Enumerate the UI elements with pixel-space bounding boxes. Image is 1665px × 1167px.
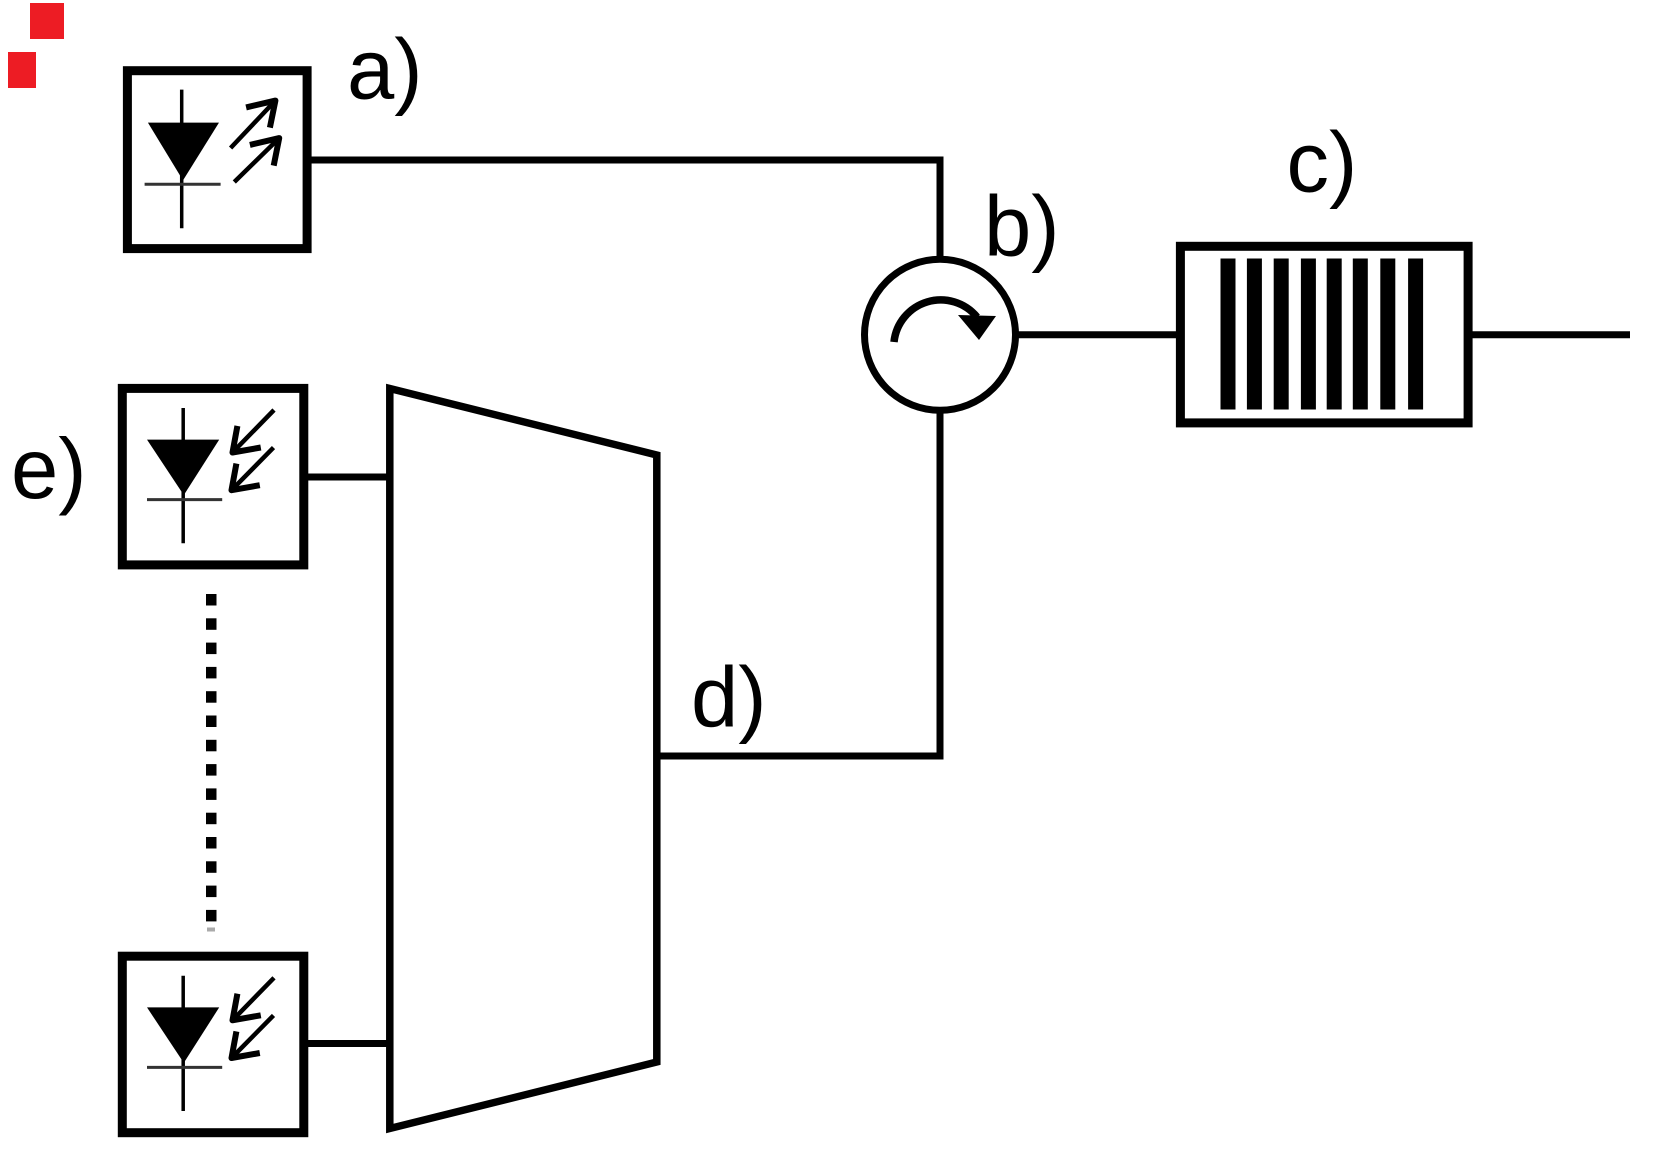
photodiode box e1 [122, 388, 303, 565]
fiber grating c [1180, 246, 1468, 423]
wire photodiode e1 to mux d [303, 474, 391, 481]
laser diode box a [127, 71, 307, 249]
mux trapezoid d [390, 389, 657, 1129]
svg-text:b): b) [984, 180, 1060, 275]
svg-text:a): a) [347, 23, 423, 118]
wire from laser a to circulator b [307, 160, 940, 259]
svg-text:e): e) [11, 422, 87, 517]
artifact red square 1 [30, 3, 64, 39]
circulator b [865, 259, 1016, 410]
dotted line between photodiodes [206, 594, 217, 932]
svg-text:c): c) [1287, 116, 1358, 211]
wire from mux d to circulator b [655, 412, 940, 756]
artifact red square 2 [8, 52, 36, 88]
wire from circulator b to grating c [1016, 331, 1180, 338]
wire from grating c to output [1468, 331, 1630, 338]
photodiode box e2 [122, 956, 303, 1133]
wire photodiode e2 to mux d [303, 1040, 391, 1047]
svg-text:d): d) [691, 651, 767, 746]
